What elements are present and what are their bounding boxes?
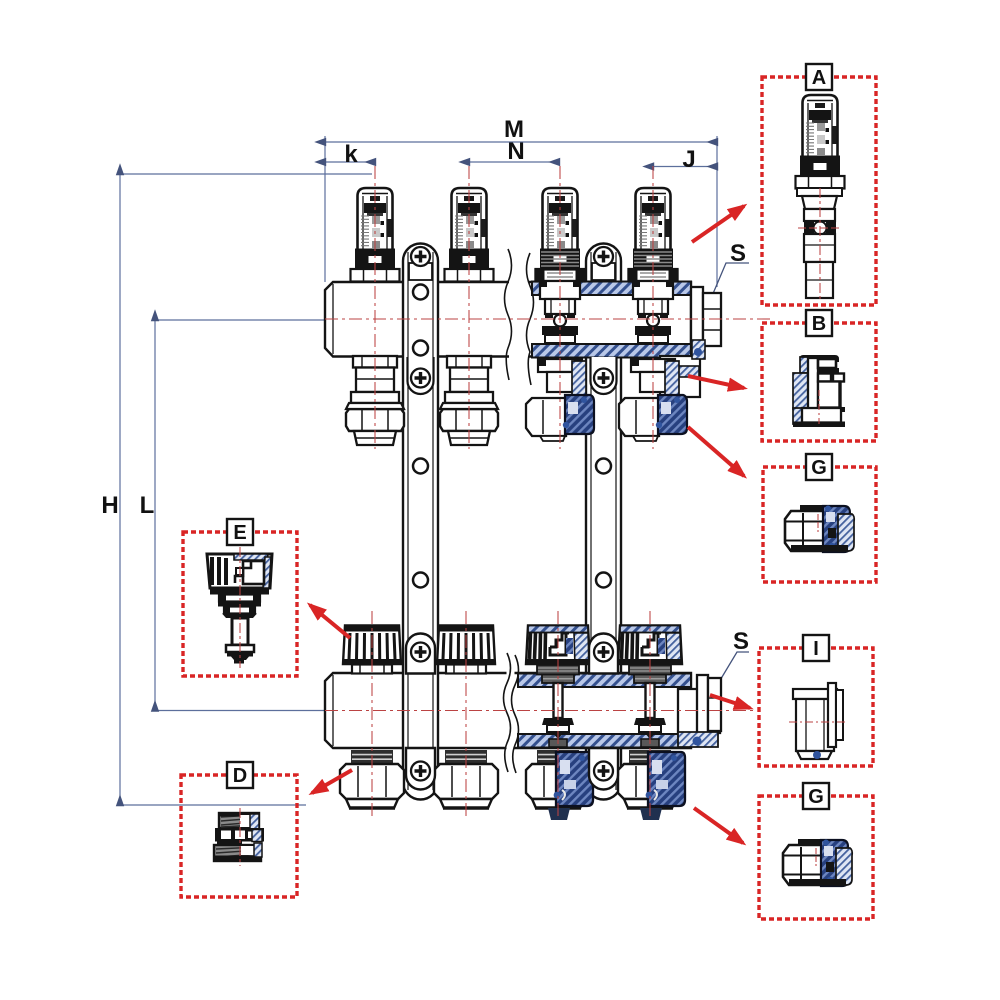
- svg-text:A: A: [812, 67, 826, 89]
- svg-text:B: B: [812, 313, 826, 335]
- svg-text:k: k: [344, 141, 358, 168]
- svg-text:I: I: [813, 638, 819, 660]
- svg-text:L: L: [140, 492, 155, 519]
- svg-text:S: S: [733, 628, 749, 655]
- svg-text:N: N: [507, 138, 524, 165]
- svg-text:H: H: [101, 492, 118, 519]
- svg-text:D: D: [233, 765, 247, 787]
- svg-text:E: E: [233, 522, 246, 544]
- svg-text:G: G: [808, 786, 824, 808]
- svg-text:G: G: [811, 457, 827, 479]
- svg-text:J: J: [682, 146, 695, 173]
